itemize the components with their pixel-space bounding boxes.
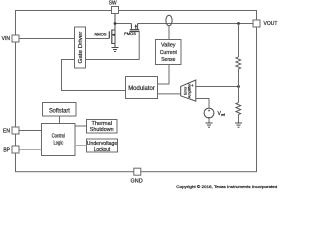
svg-text:SW: SW xyxy=(109,0,117,6)
svg-text:GND: GND xyxy=(130,179,142,185)
svg-text:Shutdown: Shutdown xyxy=(90,127,114,133)
transistor NMOS low-side xyxy=(109,14,115,48)
block Undervoltage Lockout xyxy=(87,139,118,153)
pin EN xyxy=(12,127,19,134)
wire SW junction to PMOS drain xyxy=(115,23,131,25)
svg-text:Sense: Sense xyxy=(161,57,175,63)
block Gate Driver xyxy=(75,27,86,68)
wire R2 to ground xyxy=(238,115,240,123)
block Valley Current Sense xyxy=(156,40,182,65)
wire Control Logic to Undervoltage Lockout xyxy=(75,145,87,147)
node feedback junction xyxy=(237,85,240,88)
resistor R2 lower divider xyxy=(236,103,241,115)
node SW junction xyxy=(114,22,117,25)
svg-text:Control: Control xyxy=(52,133,66,139)
op-amp Error Amplifier (gm trapezoid) xyxy=(181,80,196,102)
resistor R1 upper divider xyxy=(236,57,241,69)
pin BP xyxy=(12,146,19,153)
block Softstart xyxy=(43,103,77,117)
wire Vref to Error Amplifier minus input xyxy=(196,99,209,109)
wire Valley Current Sense to Modulator xyxy=(158,65,170,85)
svg-text:Vref: Vref xyxy=(218,111,225,117)
svg-text:Lockout: Lockout xyxy=(94,147,111,153)
wire Vref to ground xyxy=(208,118,210,123)
wire BP to Control Logic xyxy=(19,149,42,151)
svg-text:Logic: Logic xyxy=(54,140,64,146)
IC boundary xyxy=(16,11,257,172)
wire feedback node to Error Amplifier plus input xyxy=(196,86,239,88)
node VOUT divider junction xyxy=(237,22,240,25)
wire Softstart to Control Logic xyxy=(59,116,61,124)
block Control Logic xyxy=(42,124,76,156)
svg-text:NMOS: NMOS xyxy=(95,32,107,37)
wire R1 to R2 through feedback node xyxy=(238,69,240,103)
wire NMOS gate to Gate Driver xyxy=(86,38,110,40)
wire PMOS source to VOUT pin xyxy=(138,23,253,25)
pin VOUT xyxy=(253,20,260,27)
svg-text:Modulator: Modulator xyxy=(128,86,155,92)
wire PMOS gate to Gate Driver xyxy=(86,32,140,60)
svg-text:PMOS: PMOS xyxy=(124,31,136,36)
wire Control Logic to Thermal Shutdown xyxy=(75,125,87,127)
pin VIN xyxy=(12,35,19,42)
ground under NMOS xyxy=(112,48,119,52)
svg-text:Gate Driver: Gate Driver xyxy=(78,32,84,64)
ground under Vref xyxy=(206,123,213,127)
svg-text:EN: EN xyxy=(3,128,10,134)
ground under R2 xyxy=(235,123,242,127)
wire Error Amplifier output to Modulator xyxy=(158,93,182,95)
pin SW xyxy=(112,7,119,14)
svg-text:BP: BP xyxy=(3,147,10,153)
wire VIN to Gate Driver xyxy=(19,38,75,40)
block Modulator xyxy=(126,77,158,99)
source Vref xyxy=(204,108,214,119)
svg-text:Copyright © 2016, Texas Instru: Copyright © 2016, Texas Instruments Inco… xyxy=(176,184,277,189)
wire Modulator to Gate Driver loop xyxy=(62,60,126,91)
wire sense probe to Valley Current Sense xyxy=(168,26,170,40)
current sense probe ellipse xyxy=(166,15,172,26)
transistor PMOS high-side xyxy=(129,24,139,32)
block Thermal Shutdown xyxy=(87,120,118,134)
wire VOUT junction to R1 xyxy=(238,24,240,58)
pin GND xyxy=(134,168,141,175)
svg-text:Softstart: Softstart xyxy=(49,108,70,114)
svg-text:VOUT: VOUT xyxy=(264,21,278,27)
svg-text:+: + xyxy=(191,83,194,88)
svg-text:VIN: VIN xyxy=(2,36,11,42)
wire EN to Control Logic xyxy=(19,130,42,132)
svg-text:Current: Current xyxy=(160,50,178,56)
svg-text:Valley: Valley xyxy=(161,43,176,49)
